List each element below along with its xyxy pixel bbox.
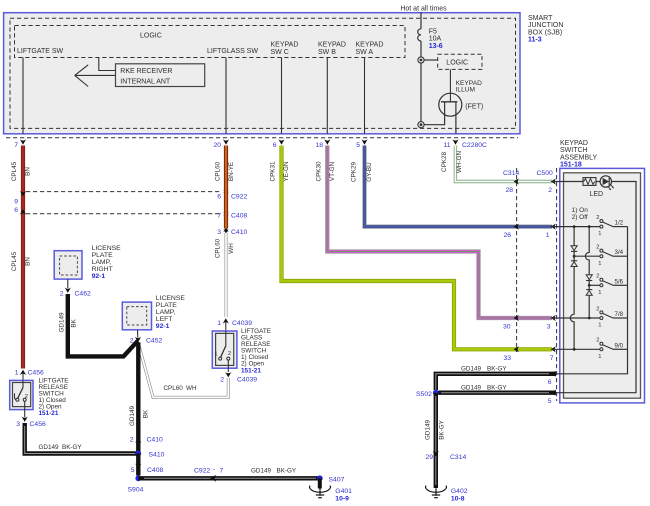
svg-text:G402: G402 xyxy=(451,488,468,495)
splice S904 xyxy=(128,475,144,493)
svg-text:7: 7 xyxy=(14,142,18,149)
svg-text:CPL45: CPL45 xyxy=(11,251,18,271)
C314 C500 crossings illum wire pins 28 2 xyxy=(505,178,556,194)
svg-text:7: 7 xyxy=(550,355,554,362)
keypad diode bus 1 xyxy=(570,227,577,350)
svg-text:10-9: 10-9 xyxy=(335,496,349,503)
connector C456 pin 3 xyxy=(16,417,46,429)
svg-text:151-18: 151-18 xyxy=(560,162,582,169)
svg-text:2: 2 xyxy=(596,245,599,251)
svg-text:RIGHT: RIGHT xyxy=(92,266,113,273)
C314 C500 crossings SW C wire pins 33 7 xyxy=(503,346,556,362)
svg-text:GD149: GD149 xyxy=(58,312,65,332)
svg-text:GD149: GD149 xyxy=(251,468,271,475)
svg-text:CPL60: CPL60 xyxy=(164,385,184,392)
svg-text:BK-GY: BK-GY xyxy=(277,468,297,475)
svg-text:PLATE: PLATE xyxy=(156,302,177,309)
transistor FET keypad illumination driver xyxy=(424,93,483,134)
svg-text:BK-GY: BK-GY xyxy=(487,385,507,392)
svg-text:YE-GN: YE-GN xyxy=(283,161,290,181)
svg-text:BK-GY: BK-GY xyxy=(62,444,82,451)
svg-text:1: 1 xyxy=(546,232,550,239)
C408 crossing wire2 pin 7 xyxy=(217,211,247,219)
connector C314 dashed line xyxy=(503,168,519,352)
svg-text:LIFTGLASS SW: LIFTGLASS SW xyxy=(207,48,258,55)
svg-text:GD149: GD149 xyxy=(461,385,481,392)
svg-text:33: 33 xyxy=(503,355,511,362)
svg-text:G401: G401 xyxy=(335,488,352,495)
svg-text:1: 1 xyxy=(217,320,221,327)
svg-text:ASSEMBLY: ASSEMBLY xyxy=(560,154,598,161)
antenna symbol xyxy=(75,65,116,87)
LED D1 xyxy=(590,176,615,198)
svg-text:S410: S410 xyxy=(149,452,165,459)
svg-text:1: 1 xyxy=(598,290,601,296)
svg-text:WH: WH xyxy=(186,385,197,392)
svg-text:JUNCTION: JUNCTION xyxy=(528,22,563,29)
svg-text:7: 7 xyxy=(220,468,224,475)
svg-text:1: 1 xyxy=(598,231,601,237)
license plate lamp right label xyxy=(92,245,122,280)
wire CPL45 labels top xyxy=(11,161,31,181)
logic small dashed box xyxy=(438,54,482,69)
svg-text:28: 28 xyxy=(505,187,513,194)
svg-text:LOGIC: LOGIC xyxy=(446,60,468,67)
svg-text:CPK29: CPK29 xyxy=(351,162,358,182)
connector C4039 pin 2 xyxy=(220,372,257,384)
svg-text:6: 6 xyxy=(548,379,552,386)
keypad legend on off xyxy=(572,207,589,221)
smart junction box SJB outer box xyxy=(4,13,520,134)
svg-text:BN: BN xyxy=(24,167,31,176)
svg-text:6: 6 xyxy=(273,142,277,149)
svg-text:20: 20 xyxy=(213,142,221,149)
svg-text:1: 1 xyxy=(598,323,601,329)
svg-text:C410: C410 xyxy=(147,437,163,444)
svg-text:C922: C922 xyxy=(194,468,210,475)
svg-text:CPL45: CPL45 xyxy=(11,161,18,181)
connector C456 pin 1 xyxy=(15,370,44,381)
svg-text:CPK31: CPK31 xyxy=(270,161,277,181)
resistor LED dropping xyxy=(583,178,596,186)
C314 C500 crossings SW A wire pins 26 1 xyxy=(503,224,556,239)
connector C408 dashed line xyxy=(26,213,222,215)
junction ring B xyxy=(418,122,424,128)
svg-text:3: 3 xyxy=(547,324,551,331)
svg-text:11: 11 xyxy=(443,142,450,149)
svg-text:KEYPAD: KEYPAD xyxy=(318,42,346,49)
wire fuse to splice ring A xyxy=(420,41,422,122)
keypad switch line 3/4 xyxy=(573,245,628,267)
wire CPL45 BN liftgate switch xyxy=(21,146,25,369)
svg-text:3: 3 xyxy=(16,421,20,428)
wire CPL60 BN-YE labels xyxy=(215,161,235,181)
connector C462 pin 2 xyxy=(60,279,91,297)
wire ring A to logic box xyxy=(424,59,438,61)
license plate lamp right E2 xyxy=(54,251,82,279)
keypad switch assembly box xyxy=(560,168,645,403)
SJB exit arrows and pins xyxy=(14,139,487,149)
svg-text:2: 2 xyxy=(596,306,599,312)
liftgate glass release switch label xyxy=(241,328,271,374)
wire GD149 BK-GY keypad pin 5 xyxy=(438,385,556,406)
svg-text:C500: C500 xyxy=(537,170,553,177)
logic block output labels xyxy=(17,42,383,56)
splice S410 xyxy=(135,451,164,459)
svg-text:2: 2 xyxy=(130,338,134,345)
keypad ground bus pin 6 xyxy=(552,227,628,374)
liftgate release switch SW1 xyxy=(10,380,33,417)
svg-text:10A: 10A xyxy=(429,36,442,43)
svg-text:LAMP,: LAMP, xyxy=(156,309,176,316)
svg-text:10-8: 10-8 xyxy=(451,496,465,503)
svg-text:18: 18 xyxy=(315,142,323,149)
SJB internal output wires xyxy=(23,58,365,134)
wire CPL60 BN-YE section xyxy=(224,146,228,229)
svg-text:2: 2 xyxy=(596,338,599,344)
svg-text:BK: BK xyxy=(143,409,150,418)
svg-text:C456: C456 xyxy=(28,370,44,377)
connector C500 dashed line xyxy=(537,168,557,401)
svg-text:1: 1 xyxy=(214,352,217,358)
C408 crossing wire1 pin 6 xyxy=(14,207,26,215)
fuse F5 10A xyxy=(418,29,443,51)
svg-text:BK-GY: BK-GY xyxy=(438,419,445,439)
inline connector C922 pin 7 xyxy=(194,466,224,482)
svg-text:INTERNAL ANT: INTERNAL ANT xyxy=(120,79,171,86)
license plate lamp left label xyxy=(156,295,186,330)
svg-text:GD149: GD149 xyxy=(461,366,481,373)
keypad switch assembly title xyxy=(560,140,598,169)
svg-text:2: 2 xyxy=(25,394,28,400)
svg-text:5: 5 xyxy=(548,398,552,405)
svg-text:1: 1 xyxy=(598,354,601,360)
svg-text:5/6: 5/6 xyxy=(615,278,624,285)
svg-text:C456: C456 xyxy=(30,421,46,428)
svg-text:6: 6 xyxy=(14,207,18,214)
svg-text:KEYPAD: KEYPAD xyxy=(271,42,299,49)
svg-text:LED: LED xyxy=(590,191,604,198)
svg-text:2: 2 xyxy=(596,274,599,280)
svg-text:C4039: C4039 xyxy=(232,320,252,327)
keypad switch line 9/0 xyxy=(552,338,628,360)
svg-text:PLATE: PLATE xyxy=(92,252,113,259)
keypad internal illum wire xyxy=(552,182,636,393)
splice S407 xyxy=(317,475,345,483)
svg-text:LOGIC: LOGIC xyxy=(140,33,162,40)
svg-text:13-6: 13-6 xyxy=(429,43,443,50)
svg-text:2: 2 xyxy=(220,377,224,384)
svg-text:S904: S904 xyxy=(128,487,144,494)
keypad switch line 5/6 xyxy=(588,274,628,296)
svg-text:2: 2 xyxy=(228,351,231,357)
svg-text:92-1: 92-1 xyxy=(92,273,106,280)
wire CPL45 labels lower xyxy=(11,251,31,271)
wire CPK31 labels xyxy=(270,161,290,181)
svg-text:C452: C452 xyxy=(146,338,162,345)
svg-text:SW B: SW B xyxy=(318,49,336,56)
hot at all times feed label xyxy=(400,6,447,13)
connector C408 pin 5 xyxy=(131,454,164,476)
svg-text:WH-GN: WH-GN xyxy=(456,151,463,173)
connector C410 on wire2 pin 3 xyxy=(217,228,247,236)
svg-text:SWITCH: SWITCH xyxy=(560,147,588,154)
svg-text:C314: C314 xyxy=(450,454,466,461)
svg-text:SW A: SW A xyxy=(356,49,374,56)
svg-text:S407: S407 xyxy=(329,476,345,483)
svg-text:1: 1 xyxy=(15,370,19,377)
svg-text:CPK28: CPK28 xyxy=(441,152,448,172)
wire CPK30 VT-GN keypad SW B xyxy=(327,146,552,319)
svg-text:3: 3 xyxy=(217,229,221,236)
svg-text:C4039: C4039 xyxy=(237,377,257,384)
SJB inner dashed outline xyxy=(10,18,516,128)
wire CPK29 GY-BU keypad SW A xyxy=(365,146,553,227)
wire CPK28 WH-GN keypad illum xyxy=(455,146,552,182)
svg-text:1: 1 xyxy=(598,261,601,267)
svg-text:F5: F5 xyxy=(429,29,437,36)
svg-text:LICENSE: LICENSE xyxy=(156,295,186,302)
svg-text:3/4: 3/4 xyxy=(615,249,624,256)
ground G401 xyxy=(309,478,352,502)
splice S502 xyxy=(416,390,439,398)
wire GD149 BK C452 to S410 xyxy=(129,343,149,454)
wire battery feed into fuse xyxy=(420,12,422,29)
svg-text:BN-YE: BN-YE xyxy=(228,162,235,181)
svg-text:SW C: SW C xyxy=(271,49,289,56)
liftgate glass release switch SW2 xyxy=(212,331,237,372)
keypad switch line 7/8 xyxy=(552,306,628,328)
svg-text:GD149: GD149 xyxy=(129,406,136,426)
license plate lamp left E1 xyxy=(122,302,151,337)
liftgate release switch label xyxy=(39,377,69,417)
svg-text:2: 2 xyxy=(130,437,134,444)
ground G402 xyxy=(425,486,467,503)
svg-text:5: 5 xyxy=(131,467,135,474)
wire GD149 BK-GY keypad pin 6 xyxy=(436,366,556,391)
C314 C500 crossings SW B wire pins 30 3 xyxy=(503,315,556,331)
svg-text:2: 2 xyxy=(596,215,599,221)
svg-text:151-21: 151-21 xyxy=(39,410,59,417)
svg-text:GD149: GD149 xyxy=(39,444,59,451)
svg-text:7/8: 7/8 xyxy=(615,311,624,318)
wire CPK28 labels xyxy=(441,151,463,173)
svg-text:BK-GY: BK-GY xyxy=(487,366,507,373)
wire CPL60 WH section xyxy=(225,233,228,317)
wire CPL60 WH switch to lamp left xyxy=(139,346,228,398)
wire CPK30 labels xyxy=(316,161,336,181)
svg-text:2) Off: 2) Off xyxy=(572,214,588,221)
svg-text:CPL60: CPL60 xyxy=(215,161,222,181)
svg-text:ILLUM: ILLUM xyxy=(456,87,475,94)
svg-text:VT-GN: VT-GN xyxy=(329,161,336,181)
svg-text:C408: C408 xyxy=(231,212,247,219)
wire CPK29 labels xyxy=(351,162,373,182)
svg-text:6: 6 xyxy=(217,193,221,200)
keypad switch line 1/2 xyxy=(552,215,628,237)
C922 crossing wire1 pin 9 xyxy=(14,191,26,206)
svg-text:C314: C314 xyxy=(503,170,519,177)
svg-text:-: - xyxy=(213,466,215,473)
svg-text:7: 7 xyxy=(217,212,221,219)
wire logic to RKE box xyxy=(99,58,116,71)
svg-text:5: 5 xyxy=(356,142,360,149)
svg-text:26: 26 xyxy=(503,232,511,239)
connector C2280 dashed line xyxy=(6,137,518,139)
svg-text:GY-BU: GY-BU xyxy=(366,162,373,182)
wire GD149 BK-GY S904 to S407 xyxy=(138,468,319,479)
svg-text:KEYPAD: KEYPAD xyxy=(560,140,588,147)
RKE receiver internal antenna box U-RKE xyxy=(116,64,205,87)
svg-text:S502: S502 xyxy=(416,391,432,398)
wire CPL60 WH labels xyxy=(215,238,235,258)
svg-text:11-3: 11-3 xyxy=(528,37,542,44)
wire GD149 BK-GY S502 to ground xyxy=(425,393,446,488)
svg-text:CPK30: CPK30 xyxy=(316,161,323,181)
svg-text:9/0: 9/0 xyxy=(615,342,624,349)
svg-text:LAMP,: LAMP, xyxy=(92,259,112,266)
connector C314 pin 29 xyxy=(425,451,466,461)
junction ring A xyxy=(418,57,424,63)
SJB title label xyxy=(528,15,563,44)
svg-text:LIFTGATE SW: LIFTGATE SW xyxy=(17,48,64,55)
svg-text:(FET): (FET) xyxy=(465,104,483,111)
svg-text:C408: C408 xyxy=(147,467,163,474)
wire GD149 BK-GY switch to S410 xyxy=(25,423,139,454)
svg-text:CPL60: CPL60 xyxy=(215,238,222,258)
svg-text:LICENSE: LICENSE xyxy=(92,245,122,252)
svg-text:SMART: SMART xyxy=(528,15,553,22)
svg-text:KEYPAD: KEYPAD xyxy=(356,42,384,49)
svg-text:151-21: 151-21 xyxy=(241,367,261,374)
connector C4039 pin 1 glass switch xyxy=(217,318,252,331)
svg-text:C462: C462 xyxy=(75,291,91,298)
wire GD149 BK lamp right to C452 xyxy=(58,294,138,356)
logic block dashed box xyxy=(15,26,406,58)
svg-text:BN: BN xyxy=(24,257,31,266)
svg-text:BOX (SJB): BOX (SJB) xyxy=(528,29,562,36)
svg-text:2: 2 xyxy=(60,291,64,298)
connector C922 dashed line xyxy=(26,191,222,193)
svg-text:Hot at all times: Hot at all times xyxy=(400,6,447,13)
svg-text:92-1: 92-1 xyxy=(156,323,170,330)
connector C410 pin 2 xyxy=(130,437,163,444)
svg-text:9: 9 xyxy=(14,199,18,206)
svg-text:BK: BK xyxy=(71,318,78,327)
svg-text:C2280C: C2280C xyxy=(462,142,487,149)
svg-text:C922: C922 xyxy=(231,193,247,200)
C922 crossing wire2 pin 6 xyxy=(217,189,247,201)
svg-text:LEFT: LEFT xyxy=(156,316,173,323)
svg-text:30: 30 xyxy=(503,324,511,331)
svg-text:RKE RECEIVER: RKE RECEIVER xyxy=(120,68,172,75)
keypad diode bus 2 xyxy=(585,227,592,318)
wire logic to FET gate xyxy=(450,69,482,101)
svg-text:2: 2 xyxy=(548,187,552,194)
svg-text:29: 29 xyxy=(425,454,433,461)
svg-text:WH: WH xyxy=(228,243,235,254)
wire CPK31 YE-GN keypad SW C xyxy=(282,146,553,350)
connector C452 pin 2 junction xyxy=(130,337,163,345)
svg-text:C410: C410 xyxy=(231,229,247,236)
svg-text:1/2: 1/2 xyxy=(615,220,624,227)
svg-text:GD149: GD149 xyxy=(425,420,432,440)
